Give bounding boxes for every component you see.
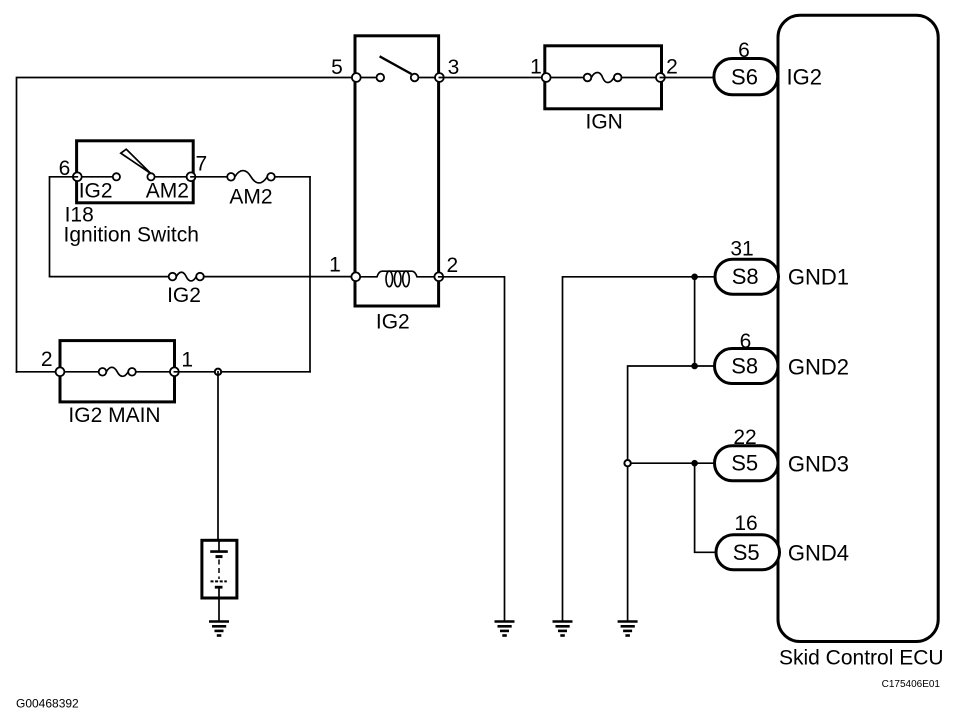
svg-text:1: 1 bbox=[329, 254, 341, 277]
svg-text:Ignition Switch: Ignition Switch bbox=[64, 224, 199, 247]
wire relay pin 3 to IGN fuse bbox=[439, 77, 546, 79]
svg-text:IG2: IG2 bbox=[787, 65, 822, 90]
svg-text:IG2 MAIN: IG2 MAIN bbox=[68, 404, 160, 427]
svg-text:6: 6 bbox=[740, 330, 752, 353]
connector S5 GND4 bbox=[716, 535, 780, 570]
svg-text:S8: S8 bbox=[732, 264, 759, 289]
svg-text:C175406E01: C175406E01 bbox=[882, 679, 941, 690]
svg-text:Skid Control ECU: Skid Control ECU bbox=[779, 647, 944, 670]
wire GND3 row bbox=[628, 462, 715, 464]
label GND3 bbox=[788, 452, 849, 477]
switch arm of relay bbox=[380, 56, 412, 74]
label IG2 MAIN bbox=[68, 404, 160, 427]
svg-text:2: 2 bbox=[41, 348, 53, 371]
pin 1 label of relay bbox=[329, 254, 341, 277]
svg-text:S5: S5 bbox=[733, 540, 760, 565]
node junction at battery tap bbox=[215, 369, 221, 375]
svg-text:7: 7 bbox=[195, 153, 207, 176]
connector S6 pin 6 bbox=[714, 59, 778, 95]
pin 2 label of IG2 MAIN bbox=[41, 348, 53, 371]
wire GND2 net bbox=[628, 366, 715, 622]
node junction GND3 on riser bbox=[624, 460, 630, 466]
label AM2 fuse bbox=[229, 186, 272, 209]
svg-text:1: 1 bbox=[530, 56, 542, 79]
svg-text:AM2: AM2 bbox=[229, 186, 272, 209]
fuse box IGN bbox=[542, 46, 665, 109]
svg-text:G00468392: G00468392 bbox=[16, 697, 79, 711]
svg-text:IG2: IG2 bbox=[376, 311, 410, 334]
svg-text:GND4: GND4 bbox=[788, 541, 849, 566]
label GND4 bbox=[788, 541, 849, 566]
svg-text:GND1: GND1 bbox=[788, 265, 849, 290]
ground 2 bbox=[553, 622, 573, 636]
ground under battery bbox=[209, 622, 229, 636]
wire battery to ground bbox=[218, 598, 220, 622]
pin number 22 bbox=[733, 426, 756, 449]
label Skid Control ECU bbox=[779, 647, 944, 670]
fuse AM2 bbox=[227, 171, 275, 183]
wire battery drop bbox=[217, 372, 219, 541]
svg-text:16: 16 bbox=[734, 512, 757, 535]
label IG2 inside switch bbox=[79, 180, 113, 203]
ground 1 bbox=[495, 622, 515, 636]
label IGN bbox=[586, 111, 623, 134]
wire GND1 net bbox=[563, 277, 716, 622]
svg-text:S6: S6 bbox=[731, 65, 758, 90]
svg-text:AM2: AM2 bbox=[146, 180, 189, 203]
Skid Control ECU box bbox=[778, 15, 938, 641]
svg-text:IGN: IGN bbox=[586, 111, 623, 134]
svg-text:S8: S8 bbox=[731, 354, 758, 379]
node junction GND1 bbox=[691, 274, 698, 281]
svg-text:5: 5 bbox=[331, 56, 343, 79]
wire pin 6 to left riser down to IG2 fuse row bbox=[50, 177, 169, 277]
fuse box IG2 MAIN bbox=[56, 341, 179, 402]
wire top net from battery loop to relay pin 5 bbox=[17, 78, 357, 373]
ground 3 bbox=[618, 622, 638, 636]
wire riser from AM2 wire down to IG2 MAIN wire bbox=[309, 177, 311, 372]
svg-text:IG2: IG2 bbox=[167, 284, 201, 307]
pin 3 label bbox=[448, 56, 460, 79]
pin 1 label of IGN bbox=[530, 56, 542, 79]
figure id G00468392 bbox=[16, 697, 79, 711]
svg-text:S5: S5 bbox=[731, 451, 758, 476]
ignition switch I18 box bbox=[73, 141, 196, 203]
pin number 16 bbox=[734, 512, 757, 535]
svg-text:2: 2 bbox=[666, 56, 678, 79]
relay coil bbox=[356, 271, 439, 277]
svg-text:31: 31 bbox=[730, 238, 753, 261]
svg-text:GND2: GND2 bbox=[788, 355, 849, 380]
pin 7 label bbox=[195, 153, 207, 176]
svg-text:6: 6 bbox=[738, 39, 750, 62]
label IG2 at ECU bbox=[787, 65, 822, 90]
label AM2 inside switch bbox=[146, 180, 189, 203]
figure id C175406E01 bbox=[882, 679, 941, 690]
wire junction GND1 down to GND2 bbox=[694, 277, 696, 366]
wire relay pin 2 to ground bbox=[439, 277, 505, 622]
fuse IG2 bbox=[169, 272, 204, 281]
svg-text:GND3: GND3 bbox=[788, 452, 849, 477]
wire AM2 run: pin 7 to fuse to riser bbox=[191, 176, 310, 178]
label GND1 bbox=[788, 265, 849, 290]
label I18 bbox=[65, 204, 94, 227]
pin 1 label of IG2 MAIN bbox=[181, 349, 193, 372]
pin 6 label bbox=[59, 157, 71, 180]
node junction GND3 bbox=[691, 460, 698, 467]
pin 2 label of relay bbox=[446, 254, 458, 277]
label GND2 bbox=[788, 355, 849, 380]
wire IGN pin 2 to connector S6 bbox=[660, 77, 714, 79]
label IG2 fuse bbox=[167, 284, 201, 307]
svg-text:3: 3 bbox=[448, 56, 460, 79]
label Ignition Switch bbox=[64, 224, 199, 247]
pin number 31 bbox=[730, 238, 753, 261]
wire bottom-left to IG2 MAIN pin 2 bbox=[17, 371, 61, 373]
svg-text:2: 2 bbox=[446, 254, 458, 277]
label IG2 relay bbox=[376, 311, 410, 334]
pin number 6 of GND2 bbox=[740, 330, 752, 353]
pin number 6 of S6 bbox=[738, 39, 750, 62]
battery bbox=[202, 540, 237, 598]
connector S8 GND2 bbox=[715, 349, 779, 384]
wire from IG2 MAIN pin 1 to right riser bbox=[174, 371, 310, 373]
svg-text:22: 22 bbox=[733, 426, 756, 449]
node junction GND2 bbox=[691, 363, 698, 370]
wire GND3 down to GND4 bbox=[695, 463, 716, 552]
wire IG2 fuse to relay pin 1 bbox=[204, 276, 356, 278]
relay IG2 box bbox=[351, 36, 443, 306]
svg-text:IG2: IG2 bbox=[79, 180, 113, 203]
connector S8 GND1 bbox=[715, 259, 779, 294]
svg-text:1: 1 bbox=[181, 349, 193, 372]
connector S5 GND3 bbox=[715, 446, 779, 481]
pin 2 label of IGN bbox=[666, 56, 678, 79]
pin 5 label bbox=[331, 56, 343, 79]
lever of ignition switch bbox=[121, 149, 151, 173]
